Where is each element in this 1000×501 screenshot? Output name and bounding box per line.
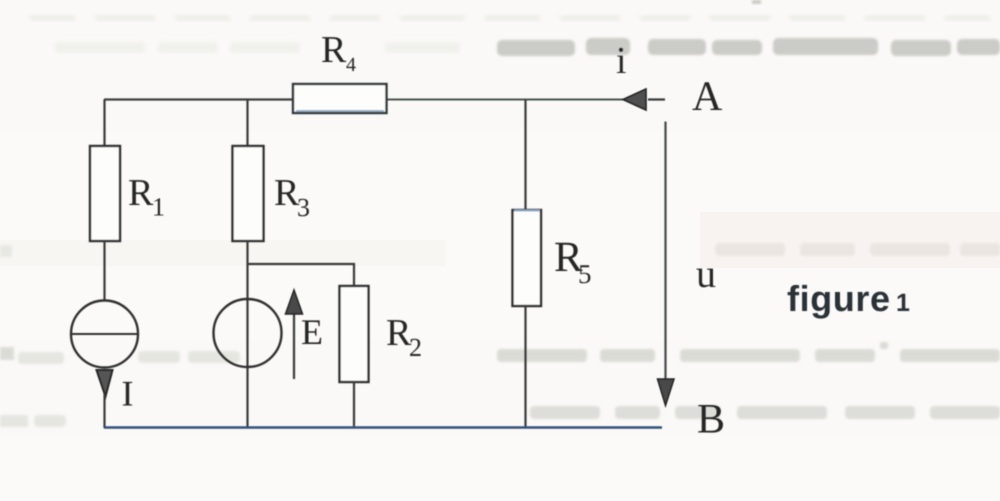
bottom wire node B rail — [104, 426, 662, 429]
wire stub right of arrow i — [648, 98, 665, 100]
bleed-through words lower-left — [0, 351, 240, 427]
current source I circle — [71, 301, 138, 368]
bleed-through text line top-right — [497, 38, 1000, 56]
wire R3 down through source E to bottom — [246, 241, 248, 428]
resistor R4 — [293, 84, 387, 113]
label R4 — [322, 37, 346, 62]
current source chord — [70, 333, 139, 335]
bleed-through dash top right corner — [752, 0, 761, 4]
resistor R5 — [513, 210, 542, 306]
caption figure 1 — [788, 285, 889, 319]
resistor R2 — [340, 286, 369, 382]
bleed-through band middle left — [0, 240, 445, 266]
wire left column top — [103, 100, 105, 148]
arrow u head — [658, 379, 675, 406]
node A label — [692, 82, 722, 110]
label R1 — [129, 180, 153, 205]
resistor R1 — [90, 146, 120, 241]
bleed-through text line lower-right 2 — [530, 406, 1000, 419]
label R3 — [275, 180, 299, 205]
voltage source E circle — [214, 299, 282, 367]
wire top horizontal left — [104, 98, 293, 100]
wire R3 column top — [246, 100, 248, 148]
wire R5 column top — [524, 100, 526, 212]
wire top horizontal right of R4 — [386, 99, 624, 101]
node B label — [698, 405, 723, 433]
bleed-through band right (pinkish) — [700, 212, 1000, 268]
bleed-through dashed rule (top) — [30, 15, 990, 21]
label u — [697, 269, 716, 288]
wire R2 to bottom — [353, 382, 355, 428]
wire R1 to source I — [103, 241, 105, 301]
label I — [123, 382, 132, 406]
label R2 — [387, 320, 411, 345]
bleed-through text line lower-right 1 — [0, 342, 1000, 362]
label i — [617, 48, 626, 73]
bleed-through text line top-left — [55, 42, 460, 53]
wire source I to bottom — [103, 394, 105, 428]
arrow u line — [664, 122, 666, 386]
label E — [302, 320, 321, 344]
arrow E line — [293, 312, 295, 379]
resistor R3 — [233, 146, 264, 241]
arrow i head — [623, 89, 646, 110]
arrow I head — [97, 370, 113, 397]
arrow E head — [286, 290, 303, 314]
wire R5 to bottom — [524, 306, 526, 428]
label R5 — [555, 243, 582, 271]
wire jumper to R2 — [248, 264, 355, 287]
